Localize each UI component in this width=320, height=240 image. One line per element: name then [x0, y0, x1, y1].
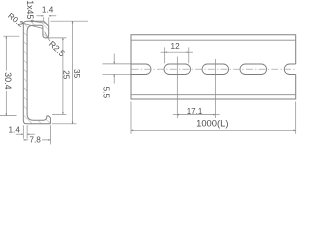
- dimension 1.4 (top lip width): [37, 16, 57, 25]
- slot 2: [164, 64, 191, 75]
- svg-text:7.8: 7.8: [29, 135, 41, 144]
- section hatching: [23, 21, 50, 124]
- slot 1 (cut by left rail end): [131, 64, 151, 75]
- slot 2 center mark / ext line: [176, 57, 178, 119]
- svg-text:1.4: 1.4: [9, 126, 21, 135]
- slot 4: [240, 64, 266, 75]
- dimension 35 (overall height): [51, 21, 89, 124]
- centerline (dash-dot): [132, 68, 296, 70]
- dimension 7.8 (profile depth): [23, 125, 50, 144]
- dimension 12 (slot length): [161, 47, 193, 63]
- svg-text:1000(L): 1000(L): [196, 118, 228, 129]
- svg-text:1x45°: 1x45°: [25, 0, 35, 23]
- dimension 30.4 (web inner height, left): [0, 36, 20, 115]
- dimension 17.1 (slot pitch): [173, 114, 220, 116]
- svg-text:1.4: 1.4: [42, 5, 54, 14]
- slot 3: [202, 64, 229, 75]
- svg-text:17.1: 17.1: [187, 107, 203, 116]
- svg-text:5.5: 5.5: [102, 87, 111, 99]
- dimension 1.4 (web thickness, bottom): [16, 125, 35, 138]
- svg-text:R2.5: R2.5: [47, 39, 67, 59]
- dimension 5.5 (slot width): [103, 54, 131, 84]
- svg-text:12: 12: [171, 42, 181, 51]
- rail front view outline (right): [131, 35, 296, 99]
- dimension 25 (between lips): [46, 38, 66, 115]
- slot 3 center mark / ext line: [215, 59, 217, 118]
- slot 5 (cut by right rail end): [284, 64, 295, 75]
- svg-text:25: 25: [62, 70, 71, 80]
- svg-text:35: 35: [72, 69, 81, 79]
- svg-text:R0.2: R0.2: [6, 11, 25, 29]
- svg-text:30.4: 30.4: [3, 72, 13, 90]
- dimension 1000(L) overall length: [131, 102, 296, 134]
- fold line bottom: [131, 94, 296, 96]
- fold line top: [131, 39, 296, 41]
- DIN rail cross-section profile (left view): [23, 21, 50, 124]
